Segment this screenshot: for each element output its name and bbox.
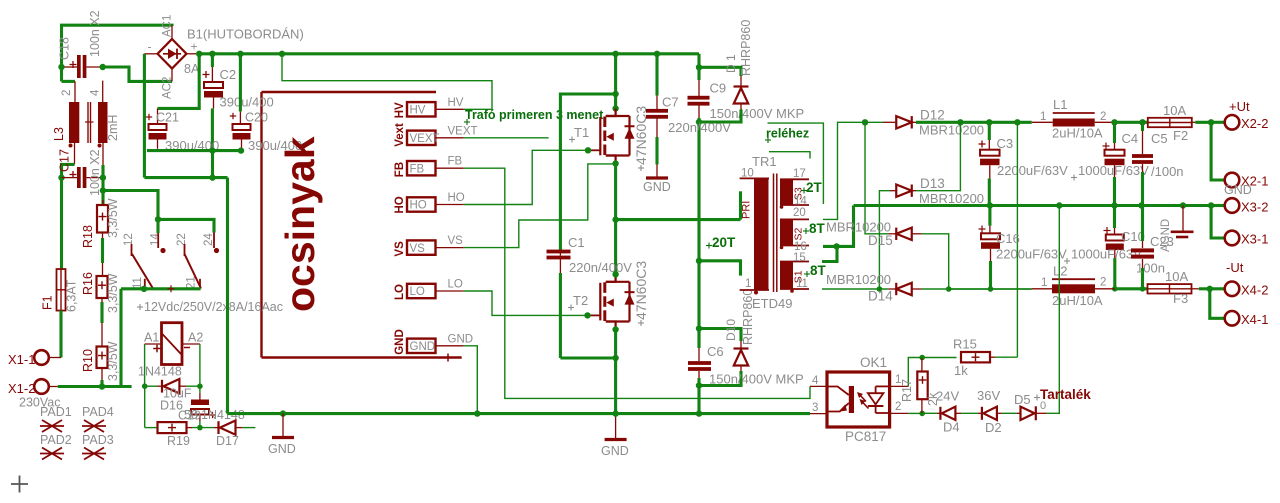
svg-text:2: 2 [1100, 277, 1106, 289]
svg-text:ETD49: ETD49 [752, 296, 792, 311]
svg-text:C4: C4 [1122, 131, 1139, 146]
svg-text:F1: F1 [41, 295, 55, 310]
svg-text:X2-2: X2-2 [1241, 116, 1268, 131]
svg-text:LO: LO [410, 286, 425, 298]
svg-text:B1(HUTOBORDÁN): B1(HUTOBORDÁN) [187, 27, 304, 42]
svg-text:GND: GND [394, 329, 406, 355]
svg-text:4: 4 [90, 89, 102, 96]
svg-text:47N60C3: 47N60C3 [633, 106, 649, 165]
svg-text:GND: GND [410, 341, 436, 353]
svg-text:R16: R16 [81, 272, 95, 295]
svg-text:-Ut: -Ut [1226, 260, 1244, 275]
svg-text:GND: GND [643, 180, 671, 194]
svg-text:10: 10 [741, 168, 754, 180]
svg-text:VS: VS [448, 235, 464, 247]
svg-text:20: 20 [793, 207, 806, 219]
svg-text:X1-2: X1-2 [8, 381, 35, 396]
svg-text:6,3AT: 6,3AT [65, 279, 79, 312]
svg-text:HO: HO [410, 200, 427, 212]
svg-text:HV: HV [394, 102, 406, 118]
svg-text:X1-1: X1-1 [8, 352, 35, 367]
svg-text:PAD4: PAD4 [82, 405, 114, 419]
svg-text:C1: C1 [568, 235, 585, 250]
svg-text:2mH: 2mH [106, 115, 120, 141]
svg-text:10A: 10A [1165, 269, 1188, 284]
svg-text:GND: GND [268, 442, 296, 456]
svg-text:L3: L3 [52, 127, 66, 141]
svg-text:Trafó primeren 3 menet: Trafó primeren 3 menet [465, 108, 604, 122]
svg-text:C9: C9 [710, 81, 727, 96]
svg-text:D 1: D 1 [724, 54, 738, 73]
svg-text:PAD2: PAD2 [40, 433, 72, 447]
svg-text:14: 14 [794, 196, 807, 208]
svg-text:A1: A1 [144, 331, 159, 345]
svg-text:2200uF/63V: 2200uF/63V [997, 163, 1068, 178]
svg-text:C17: C17 [58, 149, 72, 172]
svg-text:20T: 20T [712, 235, 736, 250]
svg-text:3: 3 [812, 402, 818, 414]
svg-text:12Vdc/250V/2x8A/16Aac: 12Vdc/250V/2x8A/16Aac [144, 300, 283, 314]
svg-text:D14: D14 [868, 289, 893, 304]
svg-text:11: 11 [796, 278, 808, 290]
svg-text:F3: F3 [1173, 291, 1188, 306]
svg-text:C18: C18 [58, 37, 72, 60]
svg-text:C2: C2 [220, 67, 237, 82]
svg-text:-: - [148, 40, 152, 54]
svg-text:+: + [191, 40, 198, 54]
svg-text:10A: 10A [1163, 103, 1186, 118]
svg-text:S2: S2 [793, 227, 805, 240]
svg-text:1: 1 [1040, 111, 1046, 123]
svg-text:150n/400V MKP: 150n/400V MKP [709, 372, 804, 387]
svg-text:2: 2 [61, 90, 73, 96]
svg-text:47N60C3: 47N60C3 [633, 261, 649, 320]
svg-text:220n/400V: 220n/400V [569, 260, 632, 275]
svg-text:2200uF/63V: 2200uF/63V [996, 247, 1067, 262]
svg-text:C23: C23 [1150, 234, 1174, 249]
svg-text:GND: GND [1224, 183, 1252, 197]
svg-text:FB: FB [448, 156, 463, 168]
svg-text:50: 50 [184, 408, 198, 422]
svg-text:8A: 8A [184, 62, 200, 76]
svg-text:R15: R15 [953, 337, 977, 352]
svg-text:15: 15 [793, 252, 806, 264]
svg-text:D2: D2 [985, 420, 1002, 435]
svg-text:RHRP860: RHRP860 [739, 20, 753, 76]
svg-text:AC1: AC1 [162, 15, 174, 37]
svg-text:HV: HV [448, 97, 464, 109]
svg-text:/100n: /100n [1151, 164, 1184, 179]
svg-text:TR1: TR1 [752, 154, 777, 169]
svg-text:1: 1 [1041, 277, 1047, 289]
svg-text:FB: FB [394, 162, 406, 177]
svg-text:VS: VS [410, 243, 426, 255]
svg-text:1N4148: 1N4148 [138, 365, 182, 379]
svg-text:X4-1: X4-1 [1241, 312, 1268, 327]
svg-text:14: 14 [150, 233, 162, 246]
svg-text:R19: R19 [167, 434, 190, 448]
svg-text:PC817: PC817 [845, 429, 886, 444]
svg-text:X3-1: X3-1 [1241, 232, 1268, 247]
svg-text:C3: C3 [997, 136, 1014, 151]
svg-text:17: 17 [793, 168, 806, 180]
svg-text:HO: HO [394, 196, 406, 213]
svg-text:GND: GND [448, 333, 474, 345]
svg-text:C5: C5 [1151, 131, 1168, 146]
svg-text:HO: HO [448, 192, 465, 204]
svg-text:24V: 24V [936, 389, 959, 404]
svg-text:A2: A2 [188, 331, 203, 345]
svg-text:3,3/5W: 3,3/5W [106, 273, 120, 313]
svg-text:MBR10200: MBR10200 [826, 272, 891, 287]
svg-text:R18: R18 [81, 225, 95, 248]
svg-text:4: 4 [812, 375, 819, 387]
svg-text:2T: 2T [806, 180, 823, 195]
svg-text:100n X2: 100n X2 [88, 149, 102, 196]
svg-text:150n/400V MKP: 150n/400V MKP [710, 106, 805, 121]
svg-text:GND: GND [601, 444, 629, 458]
svg-text:8T: 8T [810, 263, 827, 278]
svg-text:C6: C6 [707, 344, 724, 359]
svg-text:C20: C20 [245, 111, 268, 125]
svg-text:LO: LO [394, 284, 406, 300]
svg-text:PAD3: PAD3 [82, 433, 114, 447]
svg-text:1: 1 [745, 278, 751, 290]
svg-text:2uH/10A: 2uH/10A [1052, 126, 1103, 141]
svg-text:ocsinyak: ocsinyak [277, 136, 323, 312]
svg-text:D12: D12 [920, 108, 945, 123]
svg-text:MBR10200: MBR10200 [919, 191, 984, 206]
svg-text:LO: LO [448, 279, 463, 291]
svg-text:36V: 36V [977, 388, 1000, 403]
svg-text:D17: D17 [216, 434, 239, 448]
svg-text:Vext: Vext [394, 123, 406, 147]
svg-text:X4-2: X4-2 [1241, 283, 1268, 298]
svg-text:1000uF/63V: 1000uF/63V [1078, 163, 1149, 178]
svg-text:390u/400: 390u/400 [220, 95, 274, 110]
svg-text:reléhez: reléhez [766, 127, 809, 141]
svg-text:C21: C21 [156, 111, 179, 125]
svg-text:OK1: OK1 [860, 355, 887, 370]
svg-text:D13: D13 [920, 176, 945, 191]
svg-text:21: 21 [186, 276, 198, 289]
svg-text:L2: L2 [1053, 264, 1067, 279]
svg-text:VEXT: VEXT [448, 125, 478, 137]
svg-text:VS: VS [394, 241, 406, 257]
svg-text:3,3/5W: 3,3/5W [106, 341, 120, 381]
svg-text:PAD1: PAD1 [40, 405, 72, 419]
svg-text:X3-2: X3-2 [1241, 200, 1268, 215]
svg-text:22: 22 [176, 233, 188, 246]
svg-text:3,3/5W: 3,3/5W [106, 198, 120, 238]
svg-text:Tartalék: Tartalék [1040, 387, 1091, 402]
svg-text:FB: FB [410, 163, 425, 175]
svg-text:12: 12 [123, 233, 135, 246]
svg-text:T2: T2 [573, 293, 588, 308]
svg-text:8T: 8T [809, 221, 826, 236]
svg-text:100n: 100n [1136, 261, 1165, 276]
svg-text:VEXT: VEXT [410, 133, 440, 145]
svg-text:1k: 1k [954, 363, 968, 378]
svg-text:F2: F2 [1173, 128, 1188, 143]
svg-text:MBR10200: MBR10200 [919, 123, 984, 138]
svg-text:100n X2: 100n X2 [88, 10, 102, 57]
svg-text:T1: T1 [574, 125, 589, 140]
svg-text:D15: D15 [868, 233, 893, 248]
svg-text:2: 2 [1100, 111, 1106, 123]
svg-text:PRI: PRI [741, 201, 753, 219]
svg-text:R10: R10 [81, 349, 95, 372]
svg-text:D10: D10 [724, 319, 738, 341]
svg-text:L1: L1 [1053, 97, 1067, 112]
svg-text:C7: C7 [662, 95, 679, 110]
svg-text:220n/400V: 220n/400V [668, 120, 731, 135]
svg-text:AC2: AC2 [162, 77, 174, 99]
svg-text:D4: D4 [943, 420, 960, 435]
svg-text:C16: C16 [996, 231, 1020, 246]
svg-text:+Ut: +Ut [1229, 99, 1250, 114]
svg-text:D5: D5 [1014, 392, 1031, 407]
svg-text:R17: R17 [900, 379, 914, 402]
svg-text:HV: HV [410, 105, 426, 117]
